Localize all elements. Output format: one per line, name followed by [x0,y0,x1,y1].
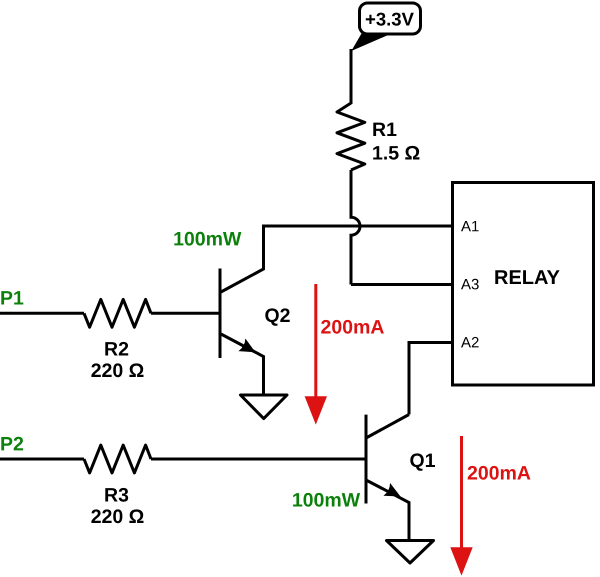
wire P2 to R3 [0,458,84,461]
transistor Q1 [366,415,409,540]
resistor R2 [84,299,151,327]
wire P1 to R2 [0,312,84,315]
annotation 200mA (left) [321,320,384,334]
node P2 [1,437,23,451]
wire R3 to Q1 base [151,458,366,461]
pin A1 [461,221,479,231]
current arrow 200mA (right) [450,436,472,576]
ground (Q2 emitter) [241,395,288,419]
pin A3 [461,279,479,290]
wire R1 to node (with hop over A1 wire) [351,170,360,285]
wire node to relay A3 [351,283,453,286]
label Q1 [410,453,435,470]
current arrow 200mA (left) [305,284,327,425]
resistor R1 [337,103,365,170]
pin A2 [461,337,479,348]
label Q2 [265,308,289,325]
label R1 value [373,146,419,160]
label R3 value [91,509,143,523]
annotation 100mW (Q2) [174,232,241,246]
power flag +3.3V [351,3,420,51]
label R2 value [91,363,143,377]
wire R2 to Q2 base [151,312,220,315]
transistor Q2 [220,269,264,395]
label R2 [105,342,128,356]
label R3 [105,488,128,502]
wire Q1 collector diagonal [366,415,409,439]
label R1 [373,123,396,136]
wire supply to R1 [350,49,353,104]
wire Q2 collector riser [220,225,264,293]
relay U1 [453,183,594,386]
resistor R3 [84,445,151,473]
wire Q2 collector to relay A1 [264,225,453,228]
node P1 [1,291,23,304]
ground (Q1 emitter) [387,541,434,564]
wire relay A2 to Q1 collector [409,343,453,415]
annotation 100mW (Q1) [293,493,360,507]
annotation 200mA (right) [468,466,531,480]
